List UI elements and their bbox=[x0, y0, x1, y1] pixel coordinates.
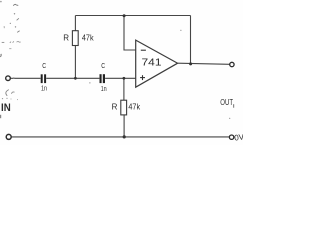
svg-text:R: R bbox=[112, 103, 118, 112]
svg-text:R: R bbox=[63, 34, 69, 43]
svg-text:OUT: OUT bbox=[220, 97, 233, 107]
svg-text:0V: 0V bbox=[234, 132, 243, 142]
svg-text:47k: 47k bbox=[128, 103, 141, 112]
svg-text:C: C bbox=[101, 63, 105, 70]
svg-text:741: 741 bbox=[142, 56, 162, 68]
svg-text:IN: IN bbox=[1, 102, 11, 114]
svg-text:1n: 1n bbox=[41, 85, 47, 92]
svg-text:47k: 47k bbox=[82, 34, 95, 43]
svg-text:C: C bbox=[42, 63, 46, 70]
svg-text:1n: 1n bbox=[101, 86, 107, 93]
